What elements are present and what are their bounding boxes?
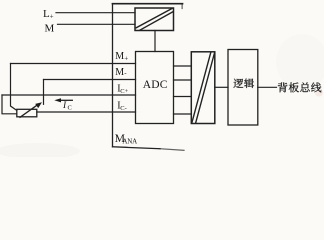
svg-text:C-: C-: [120, 105, 127, 112]
svg-text:M: M: [45, 23, 55, 35]
svg-text:+: +: [124, 54, 128, 62]
svg-text:C+: C+: [120, 88, 128, 95]
svg-text:M: M: [115, 67, 124, 78]
svg-text:M: M: [115, 51, 124, 62]
svg-text:C: C: [68, 105, 72, 112]
svg-text:ANA: ANA: [122, 138, 137, 146]
svg-text:+: +: [50, 13, 54, 21]
svg-text:ADC: ADC: [143, 79, 168, 91]
